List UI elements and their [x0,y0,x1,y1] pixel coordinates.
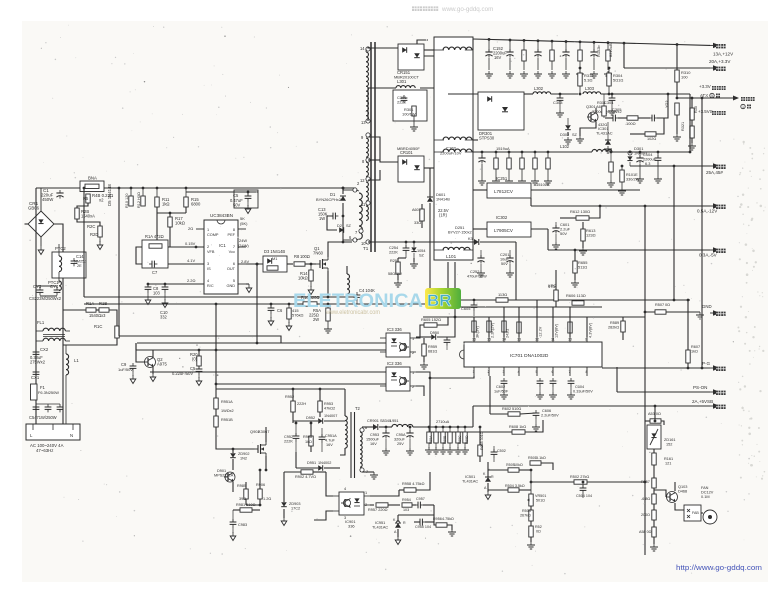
resistor R953 [318,388,335,417]
wire mid bus b [84,303,303,305]
resistor R5 [83,194,90,203]
diode D601 [427,168,450,240]
inductor L301 [368,79,415,121]
svg-text:R605 152Ω: R605 152Ω [421,317,441,322]
svg-text:113Ω: 113Ω [498,292,507,297]
resistor R503 [520,506,533,521]
svg-text:FL1: FL1 [37,320,45,325]
svg-text:IC251: IC251 [496,176,508,181]
wire blue line [531,205,710,207]
svg-text:R95C: R95C [458,435,462,444]
svg-text:100: 100 [681,75,688,80]
wire HV bus [36,187,356,189]
svg-text:SZ: SZ [346,224,352,228]
resistor R956 [433,515,456,536]
svg-text:8210uB: 8210uB [608,43,613,57]
capacitor/resistor top row 0 [506,39,514,78]
resistor network above IC701 [472,321,593,338]
svg-text:IC1: IC1 [219,243,226,248]
transformer T1 primary [343,181,362,242]
svg-text:R: R [491,475,494,479]
svg-text:470uF/25W: 470uF/25W [467,275,487,279]
svg-text:F6.3N250W: F6.3N250W [38,390,59,395]
wire sense out [677,97,733,99]
svg-text:R606 113Ω: R606 113Ω [566,293,586,298]
arrow purple 5VSB [692,399,726,409]
wire long vertical 702 [701,98,703,368]
resistor R608 [430,420,543,434]
arrow PG gray [702,361,726,371]
svg-text:1054: 1054 [417,249,426,253]
arrow black GND [702,304,726,316]
svg-text:2200uF/10V: 2200uF/10V [440,151,462,156]
resistor R902 [284,470,326,494]
resistor R957 [368,503,400,512]
svg-text:330/2W: 330/2W [626,178,640,182]
capacitor C603b [549,378,557,399]
svg-text:1: 1 [207,228,209,232]
svg-text:D601: D601 [436,192,445,197]
transistor D901 MPS2222A [214,469,235,492]
capacitor C951A [319,428,338,452]
svg-text:C953: C953 [370,433,379,437]
resistor R985 [237,482,248,505]
svg-text:R52: R52 [535,525,542,529]
svg-text:C604: C604 [575,385,585,389]
wire opto bus 3 [136,349,386,351]
svg-text:200Ω: 200Ω [641,513,650,517]
diode D251 [448,225,516,245]
transformer T1 pin10 [355,229,370,246]
svg-text:2.8V: 2.8V [241,259,249,264]
svg-text:10kΩ: 10kΩ [514,463,523,467]
diode CR901 [362,419,391,430]
wire right rail [62,277,64,426]
wire opto bus 2 [137,342,386,344]
svg-text:R902 4.7VΩ: R902 4.7VΩ [295,475,316,479]
svg-text:L951: L951 [390,419,399,423]
svg-text:2.2uF/50V: 2.2uF/50V [541,414,559,418]
svg-text:222H: 222H [297,402,306,406]
svg-text:R: R [403,521,406,525]
svg-text:(24W): (24W) [238,243,249,248]
wire vertical x119 [118,188,120,336]
svg-text:C95A: C95A [396,433,406,437]
arrow sense [733,96,739,101]
diode DR301 box [448,92,524,141]
pin voltage notes [185,216,249,283]
svg-text:4.7uF: 4.7uF [325,439,335,443]
svg-text:VR501: VR501 [535,494,546,498]
svg-text:7: 7 [569,370,571,374]
arrow red 5V [706,163,726,175]
svg-text:1540xA: 1540xA [81,214,95,219]
resistor standby row 4 [454,426,462,454]
svg-text:282kΩ: 282kΩ [608,326,619,330]
arrow orange 3.3V [709,59,731,71]
wire vertical 430 [429,240,431,304]
svg-text:1W: 1W [319,216,325,221]
svg-text:L7905CV: L7905CV [494,228,514,233]
svg-text:681Ω: 681Ω [428,350,437,354]
fan motor [701,486,717,524]
svg-text:6: 6 [233,262,235,266]
wire down C252 [515,242,517,300]
resistor R505 [488,463,531,472]
svg-text:11: 11 [361,202,366,207]
resistor R251 [388,258,418,287]
svg-text:D5 1N4148: D5 1N4148 [107,184,112,206]
arrow PSON green [693,385,726,395]
capacitor C5b [172,366,202,386]
svg-text:D901: D901 [217,469,226,473]
svg-text:R311: R311 [597,101,606,105]
svg-text:R958 4.75kΩ: R958 4.75kΩ [402,482,425,486]
svg-text:P·G: P·G [702,361,711,366]
svg-text:L101: L101 [446,254,457,259]
svg-text:1N2: 1N2 [240,457,247,461]
svg-text:14: 14 [360,46,365,51]
svg-text:IC2 336: IC2 336 [387,361,402,366]
svg-text:C606: C606 [542,409,551,413]
svg-text:50V: 50V [233,203,241,208]
svg-text:0.5A,-12V: 0.5A,-12V [697,209,718,214]
transistor Q301 [576,104,606,143]
resistor R14 [298,263,314,295]
svg-text:R608 1kΩ: R608 1kΩ [509,425,526,429]
svg-text:222K: 222K [284,440,293,444]
wire standby to 5vsb [472,406,474,427]
svg-text:6: 6 [552,370,554,374]
svg-text:A601: A601 [412,208,421,212]
svg-text:1N4001: 1N4001 [634,152,647,156]
wire pin1 left [430,376,474,378]
svg-text:SZ: SZ [419,254,425,258]
svg-text:0Ω: 0Ω [665,303,670,307]
resistor R2B [75,203,95,219]
svg-text:501Ω: 501Ω [536,499,545,503]
svg-text:4: 4 [518,370,520,374]
svg-text:9: 9 [585,338,587,342]
svg-text:152: 152 [666,443,672,447]
resistor R981 [233,503,261,512]
svg-text:10kΩ: 10kΩ [175,221,185,226]
resistor R586 [496,292,508,302]
resistor R161 [652,453,673,478]
svg-text:D3 1N414B: D3 1N414B [264,249,285,254]
svg-text:R2D: R2D [90,232,98,237]
capacitor CY4 [29,284,62,301]
svg-text:10uF: 10uF [500,258,509,262]
resistor R1C [63,324,119,345]
zener ZD161 [647,425,676,453]
svg-text:+3.3V: +3.3V [699,84,711,89]
svg-text:1519uA: 1519uA [496,146,510,151]
svg-text:T1: T1 [363,246,369,251]
svg-text:A975: A975 [157,362,167,367]
arrow yellow +12V [676,43,734,57]
diode D301 [627,146,647,166]
resistor R312 [578,67,594,96]
svg-text:R957 220Ω: R957 220Ω [368,508,388,512]
svg-text:-12.2V: -12.2V [539,326,543,338]
svg-text:R95B: R95B [443,435,447,444]
transistor Q103 D468 [654,482,687,510]
svg-text:16V: 16V [494,55,502,60]
faint header text [412,6,493,13]
svg-text:R/C: R/C [207,284,214,288]
capacitor 5v row 0 [492,151,500,185]
svg-text:C952: C952 [284,435,293,439]
svg-text:1WΩx2: 1WΩx2 [221,409,234,413]
transformer T2 left winding [340,389,347,455]
svg-text:0.33uF/50V: 0.33uF/50V [573,390,593,394]
diode CR151 [394,40,434,80]
bridge rectifier CR1 [28,188,54,255]
svg-text:222K: 222K [389,251,398,255]
capacitor C950 [444,337,451,350]
resistor A53 [645,405,664,425]
svg-text:320uF: 320uF [394,438,406,442]
svg-text:IC302: IC302 [496,215,508,220]
resistor R504 [488,484,531,492]
svg-text:R607: R607 [691,345,700,349]
svg-text:R2C: R2C [87,224,95,229]
svg-text:13: 13 [361,120,366,125]
svg-text:TL431AC: TL431AC [462,480,478,484]
resistor R20 [190,349,201,366]
resistor R2C R2D [77,219,103,250]
svg-text:GND: GND [226,284,235,288]
svg-text:D951: D951 [307,461,316,465]
capacitor C306 [649,93,669,122]
resistor R101 [607,151,615,187]
svg-text:5: 5 [536,370,538,374]
svg-text:5: 5 [233,279,235,283]
resistor standby row 5 [461,426,469,454]
svg-text:10: 10 [361,241,366,246]
svg-text:PS-ON: PS-ON [693,385,707,390]
resistor R10 620 [301,295,319,306]
resistor R951B [214,409,234,443]
transformer T1 aux winding [346,266,350,305]
svg-text:C983: C983 [238,523,247,527]
wire bridge sides [25,223,29,225]
svg-text:0Ω: 0Ω [536,530,541,534]
capacitor/resistor top row 5 [576,40,584,78]
svg-text:ZD902: ZD902 [238,452,250,456]
capacitor C303 [553,93,564,117]
arrow white -5V [699,247,726,257]
capacitor C13 [318,207,344,230]
wire reg rail [473,189,487,191]
wire white line [548,249,710,251]
resistor A58 [639,527,658,551]
resistor R605 [416,317,448,338]
resistor R52 [527,521,542,549]
labels c103 [440,146,510,156]
svg-text:IC3 336: IC3 336 [387,327,402,332]
resistor R606 [566,293,586,305]
capacitor C603a [536,378,544,399]
svg-text:C5471W/250W: C5471W/250W [29,415,57,420]
wire vertical 257 [256,264,258,343]
svg-text:C504 104: C504 104 [576,494,592,498]
svg-text:GND: GND [702,304,712,309]
wire opto901 pin2 [370,504,374,506]
optocoupler IC3 [380,327,416,357]
labels standby row [429,435,469,444]
svg-text:C951A: C951A [325,434,337,438]
wire r1 row [63,309,86,311]
resistor R607 [686,299,700,370]
svg-text:C6: C6 [277,308,283,313]
wire opto bus 1 [119,336,281,343]
fan connector [684,505,701,521]
capacitor C305 [605,107,622,121]
capacitor C95A [394,426,414,455]
potentiometer VR501 [527,469,546,506]
svg-text:1.2Ω: 1.2Ω [263,497,271,501]
capacitor C5 [186,190,258,214]
resistor R951A [214,398,233,409]
svg-text:7N60: 7N60 [313,251,324,256]
svg-text:0.1M: 0.1M [701,495,710,499]
resistor R1B [89,301,109,318]
svg-text:Q301: Q301 [586,104,596,109]
inductor L1 [66,345,79,426]
wire left rail [35,188,37,426]
capacitor C604 [567,378,593,399]
wire mid rail 317 [423,316,645,318]
svg-text:1500uF: 1500uF [366,438,380,442]
svg-text:+3.5VS: +3.5VS [698,109,713,114]
svg-text:ZD161: ZD161 [664,438,676,442]
wire 5v rail [473,151,592,153]
resistor standby row 2 [439,426,447,454]
svg-text:D301: D301 [634,146,643,151]
svg-text:R1C: R1C [94,324,102,329]
svg-text:C957: C957 [416,497,425,501]
svg-text:IC701 DNA1002D: IC701 DNA1002D [510,353,549,359]
optocoupler IC901 [333,487,370,529]
filter box L301 [393,90,427,131]
transformer T1 secondary B [361,133,370,177]
svg-text:2: 2 [488,370,490,374]
labels 3v3 sense [698,84,755,115]
svg-text:R602: R602 [502,407,511,411]
resistor R304 [607,67,624,96]
capacitor 5v row 4 [544,151,552,185]
resistor R958 [399,472,430,492]
wire T2 gate net [216,388,293,390]
svg-text:R503: R503 [522,509,531,513]
capacitor C606 [520,409,559,431]
transformer T1 secondary C [360,177,370,221]
diode D3 with M1 box [246,249,293,272]
svg-text:L302: L302 [534,86,544,91]
wire mid bus a [84,296,357,298]
capacitor 5v row 1 [505,151,513,185]
IC302 L7905CV [473,215,548,237]
svg-text:1510vA: 1510vA [536,182,550,187]
svg-text:25A,45#: 25A,45# [706,170,723,175]
svg-text:511Ω: 511Ω [578,265,587,270]
svg-text:CS222M/250Wx2: CS222M/250Wx2 [29,296,62,301]
resistor R311 [597,94,607,127]
resistor R908 [303,422,313,452]
svg-text:x2: x2 [99,198,104,203]
diode D952 [293,414,345,424]
capacitor C601 [552,222,571,249]
resistor R612 [560,205,601,221]
svg-text:2Ω: 2Ω [188,226,193,231]
PTC1 [48,280,61,291]
svg-text:2E: 2E [77,264,82,268]
IC251 L7812CV [487,176,531,198]
svg-text:1540Ωx3: 1540Ωx3 [89,313,106,318]
svg-text:FAB: FAB [692,511,699,515]
svg-text:50V: 50V [501,262,508,266]
wire long vertical 645 [644,206,646,555]
svg-text:C303: C303 [553,100,563,105]
svg-text:OUT: OUT [227,267,236,271]
svg-text:C7: C7 [152,270,158,275]
inductor L951 [386,419,473,427]
svg-text:12: 12 [360,178,365,183]
capacitor C304 [592,93,622,115]
capacitor C105 [654,151,662,183]
wire 5VSB [655,405,710,407]
svg-text:2.2Ω: 2.2Ω [187,278,195,283]
IC301 TL431 [596,122,613,153]
PTC box with C14 [52,244,86,283]
svg-text:PEF: PEF [228,233,236,237]
svg-text:12V(8V): 12V(8V) [555,323,559,338]
svg-text:K3: K3 [468,237,473,241]
transistor Q902 K3067 [216,427,269,470]
resistor R17 [156,212,204,249]
svg-text:R502 27kΩ: R502 27kΩ [570,475,589,479]
capacitor C952 [284,422,299,452]
diode D302 [560,118,578,144]
ground pin5 [246,284,252,293]
diode D1 [316,187,346,242]
svg-text:PTC2: PTC2 [55,246,66,251]
svg-text:1N4007: 1N4007 [324,414,337,418]
svg-text:R557: R557 [641,480,650,484]
wire mid rail 300 [448,299,690,301]
capacitor/resistor top row 1 [520,39,528,78]
svg-text:T2: T2 [355,406,361,411]
resistor 100 [618,116,650,126]
svg-text:TL431AC: TL431AC [372,526,388,530]
svg-text:123Ω: 123Ω [586,233,596,238]
svg-text:R951B: R951B [221,418,233,422]
svg-text:D950: D950 [430,331,439,335]
capacitor C605 [461,299,477,316]
wire opto bus 4 [150,371,386,373]
wire top bus 12V [472,39,474,50]
resistor R101E [618,165,640,195]
svg-text:47~63Hz: 47~63Hz [36,448,53,453]
svg-text:100Ω: 100Ω [626,121,636,126]
IC IC701 DNA1002D [460,337,603,376]
wire mid rail 307 [448,306,602,308]
svg-text:C201: C201 [500,252,509,257]
svg-text:C305: C305 [612,107,622,112]
svg-text:R152b: R152b [596,45,601,57]
